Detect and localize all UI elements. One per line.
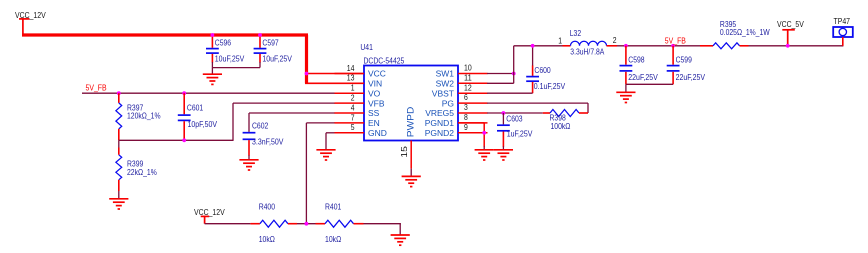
svg-text:8: 8 bbox=[464, 113, 468, 122]
ground under C602 bbox=[239, 160, 258, 170]
inductor L32 bbox=[563, 45, 571, 47]
junction PGND2 bbox=[482, 131, 486, 135]
resistor R395 bbox=[700, 45, 713, 47]
svg-text:DCDC-54425: DCDC-54425 bbox=[364, 55, 405, 65]
junction C600 top bbox=[531, 44, 535, 48]
svg-text:15: 15 bbox=[399, 146, 409, 158]
svg-text:VCC: VCC bbox=[368, 69, 386, 79]
svg-text:EN: EN bbox=[368, 118, 380, 128]
svg-text:SS: SS bbox=[368, 108, 380, 118]
svg-text:PWPD: PWPD bbox=[405, 106, 415, 137]
pin numbers right bbox=[464, 64, 472, 132]
junction C601 bottom bbox=[182, 138, 186, 142]
svg-text:VIN: VIN bbox=[368, 79, 382, 89]
svg-text:3: 3 bbox=[464, 103, 468, 112]
svg-text:10kΩ: 10kΩ bbox=[259, 234, 275, 244]
svg-text:PGND1: PGND1 bbox=[425, 118, 455, 128]
svg-text:VCC_5V: VCC_5V bbox=[777, 19, 804, 29]
wire SW2 to SW node bbox=[487, 82, 514, 84]
svg-text:3.3nF,50V: 3.3nF,50V bbox=[252, 136, 284, 146]
wire R395 to TP47 bbox=[749, 45, 844, 47]
svg-text:2: 2 bbox=[351, 94, 355, 103]
junction C599 top bbox=[671, 44, 675, 48]
svg-text:1uF,25V: 1uF,25V bbox=[507, 129, 533, 139]
svg-text:VFB: VFB bbox=[368, 98, 385, 108]
svg-text:11: 11 bbox=[464, 73, 472, 82]
wire VCC_12V to R400 bbox=[205, 223, 251, 225]
pin names right bbox=[425, 69, 455, 138]
svg-text:C603: C603 bbox=[506, 113, 523, 123]
svg-text:14: 14 bbox=[347, 64, 355, 73]
svg-text:C596: C596 bbox=[215, 37, 232, 47]
svg-text:0.025Ω_1%_1W: 0.025Ω_1%_1W bbox=[720, 27, 770, 37]
svg-text:C598: C598 bbox=[628, 54, 645, 64]
svg-text:22uF,25V: 22uF,25V bbox=[628, 72, 658, 82]
ground under C603 bbox=[494, 150, 513, 160]
wire VBST to C600 bbox=[487, 92, 533, 94]
junction VCC_5V bbox=[786, 44, 790, 48]
svg-text:SW2: SW2 bbox=[436, 79, 455, 89]
svg-text:0.1uF,25V: 0.1uF,25V bbox=[534, 81, 566, 91]
pin stubs right (10,11,12,6,3,8,9) bbox=[458, 74, 488, 133]
wire R401 to ground bbox=[364, 223, 401, 225]
svg-text:100kΩ: 100kΩ bbox=[551, 121, 571, 131]
wire VFB node horizontal bbox=[119, 139, 233, 141]
svg-text:22uF,25V: 22uF,25V bbox=[676, 72, 706, 82]
svg-text:VBST: VBST bbox=[432, 88, 455, 98]
wire 5V_FB to VO pin 1 bbox=[82, 92, 335, 94]
svg-text:GND: GND bbox=[368, 128, 387, 138]
svg-text:C602: C602 bbox=[252, 120, 269, 130]
svg-text:PGND2: PGND2 bbox=[425, 128, 455, 138]
junction EN divider node bbox=[305, 222, 309, 226]
capacitor C602 bbox=[243, 133, 256, 140]
IC U41 DCDC-54425 box bbox=[364, 66, 458, 141]
svg-text:VREG5: VREG5 bbox=[425, 108, 454, 118]
ground under C596/C597 bbox=[211, 68, 213, 74]
wire SW node vertical and to L32 bbox=[513, 46, 515, 84]
junction C601 top bbox=[182, 91, 186, 95]
svg-text:1: 1 bbox=[558, 37, 562, 46]
wire SS to C602 bbox=[249, 112, 335, 114]
pin 15 stub and number bbox=[410, 141, 412, 169]
svg-text:SW1: SW1 bbox=[436, 69, 455, 79]
junction on VCC rail at pin 14 tap bbox=[305, 72, 309, 76]
svg-text:1: 1 bbox=[351, 84, 355, 93]
wire GND pin 5 to ground bbox=[326, 132, 335, 134]
junction C603 top bbox=[502, 111, 506, 115]
wire VCC_12V thick rail bbox=[22, 33, 308, 36]
wire to VCC pin 14 bbox=[307, 73, 365, 75]
capacitor C596 bbox=[211, 37, 213, 48]
svg-text:13: 13 bbox=[347, 74, 355, 83]
wire EN pin 7 down to divider bbox=[306, 122, 335, 124]
resistor R400 bbox=[250, 223, 260, 225]
resistor R399 bbox=[118, 140, 120, 148]
ground under PGND pins bbox=[475, 150, 494, 160]
resistor R401 bbox=[316, 223, 326, 225]
junction SW1/SW2 vertical bbox=[512, 72, 516, 76]
svg-text:3.3uH/7.8A: 3.3uH/7.8A bbox=[570, 46, 604, 56]
svg-text:9: 9 bbox=[464, 123, 468, 132]
svg-text:4: 4 bbox=[351, 103, 355, 112]
svg-text:L32: L32 bbox=[570, 28, 582, 38]
ground under pin 15 bbox=[410, 169, 412, 176]
ground under GND pin bbox=[316, 150, 335, 160]
svg-text:PG: PG bbox=[442, 98, 455, 108]
svg-text:10uF,25V: 10uF,25V bbox=[262, 54, 292, 64]
junction C597 on rail bbox=[258, 33, 262, 37]
svg-text:6: 6 bbox=[464, 93, 468, 102]
capacitor C603 bbox=[502, 113, 504, 124]
svg-text:22kΩ_1%: 22kΩ_1% bbox=[127, 167, 157, 177]
svg-text:VO: VO bbox=[368, 88, 381, 98]
svg-text:10pF,50V: 10pF,50V bbox=[188, 119, 218, 129]
pin numbers left bbox=[347, 64, 355, 132]
capacitor C597 bbox=[259, 37, 261, 48]
wire VREG5 to R398 left bbox=[487, 112, 543, 114]
svg-text:C597: C597 bbox=[262, 37, 279, 47]
wire to VIN pin 13 bbox=[305, 82, 364, 84]
wire SW1 to SW node bbox=[487, 73, 514, 75]
wire C598-C599 bottoms bbox=[626, 83, 673, 85]
svg-text:12: 12 bbox=[464, 83, 472, 92]
svg-text:120kΩ_1%: 120kΩ_1% bbox=[127, 111, 161, 121]
wire R400 to R401 (EN node) bbox=[297, 223, 316, 225]
svg-text:R400: R400 bbox=[259, 202, 276, 212]
resistor R398 bbox=[543, 112, 550, 114]
svg-text:10kΩ: 10kΩ bbox=[325, 234, 341, 244]
svg-text:5V_FB: 5V_FB bbox=[86, 83, 107, 93]
capacitor C600 (bootstrap) bbox=[532, 46, 534, 66]
svg-text:10uF,25V: 10uF,25V bbox=[215, 54, 245, 64]
wire VFB node up to pin 2 bbox=[232, 103, 234, 141]
resistor R397 bbox=[118, 93, 120, 103]
svg-text:5V_FB: 5V_FB bbox=[665, 35, 686, 45]
svg-text:U41: U41 bbox=[360, 42, 373, 52]
junction C596 on rail bbox=[211, 33, 215, 37]
capacitor C601 bbox=[183, 93, 185, 114]
capacitor C599 bbox=[672, 46, 674, 65]
wire C596-C597 bottoms bbox=[212, 67, 260, 69]
ground under divider bbox=[391, 235, 410, 245]
ground under C598 bbox=[625, 84, 627, 92]
ground under R399 bbox=[109, 199, 128, 209]
svg-text:TP47: TP47 bbox=[834, 16, 851, 26]
svg-text:10: 10 bbox=[464, 64, 472, 73]
svg-text:C600: C600 bbox=[534, 65, 551, 75]
wire L32 to output caps and R395 bbox=[617, 45, 700, 47]
svg-text:R401: R401 bbox=[325, 202, 342, 212]
svg-text:2: 2 bbox=[613, 36, 617, 45]
svg-text:7: 7 bbox=[351, 113, 355, 122]
svg-text:C599: C599 bbox=[676, 54, 693, 64]
pin names left bbox=[368, 69, 387, 138]
wire PG to R398 right bbox=[487, 102, 588, 104]
svg-text:5: 5 bbox=[351, 123, 355, 132]
pin stubs left (14,13,1,2,4,7,5) bbox=[335, 74, 365, 133]
wire PGND1/PGND2 to ground bbox=[458, 122, 484, 124]
svg-text:VCC_12V: VCC_12V bbox=[194, 207, 225, 217]
junction R397 top bbox=[117, 91, 121, 95]
svg-text:C601: C601 bbox=[187, 102, 204, 112]
capacitor C598 bbox=[625, 46, 627, 65]
junction C598 top bbox=[624, 44, 628, 48]
